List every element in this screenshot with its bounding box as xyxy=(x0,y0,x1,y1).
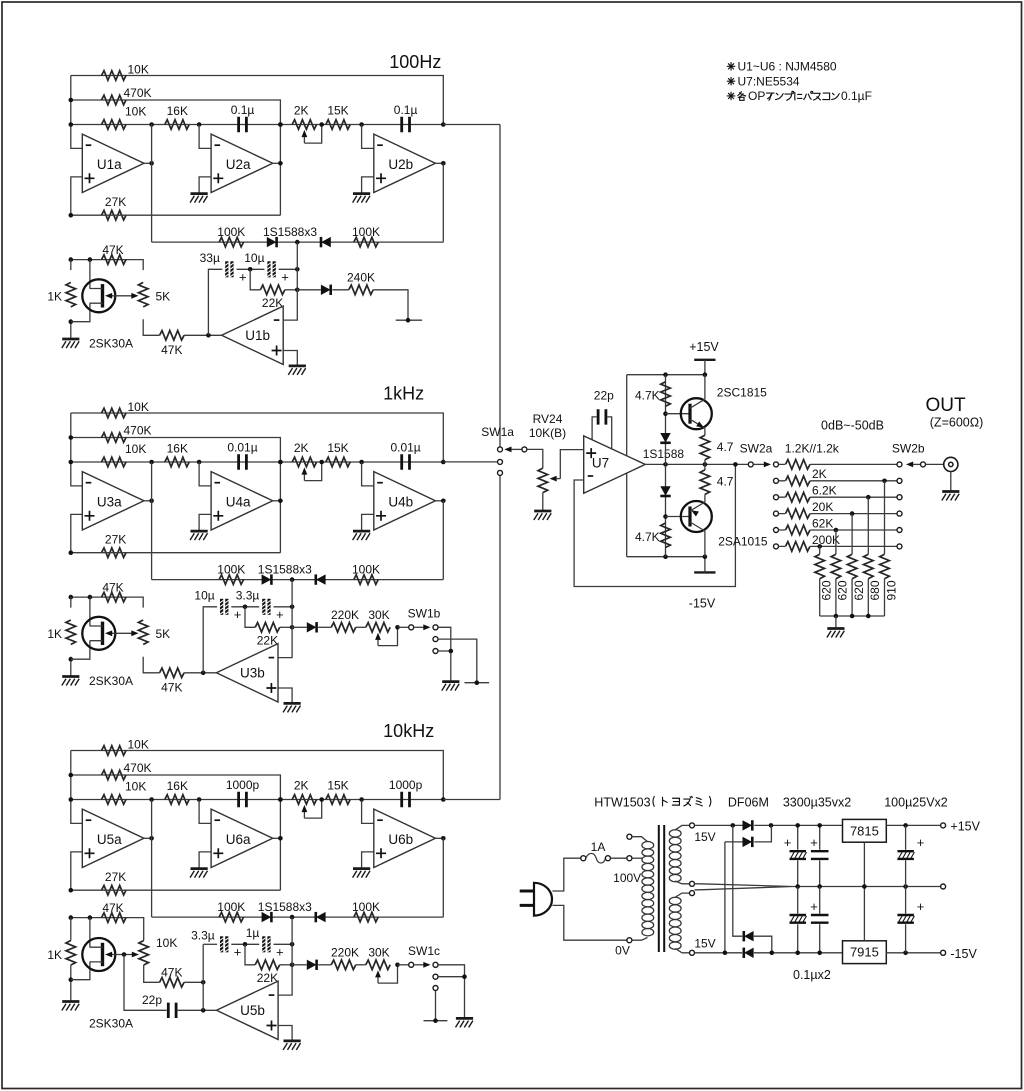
resistor 910 column 5 xyxy=(880,554,890,579)
wire 100u column lower xyxy=(905,887,907,953)
svg-text:10K: 10K xyxy=(128,738,149,752)
switch SW1b common contact xyxy=(409,625,414,630)
resistor 470K 10kHz xyxy=(102,770,127,780)
junction row3 2K 1kHz xyxy=(278,460,283,465)
resistor 620 column 1 xyxy=(815,554,825,579)
diode 1S1588 left 1kHz xyxy=(262,574,272,584)
wire SW1a wiper to RV24 xyxy=(527,449,543,468)
resistor 1K xyxy=(66,620,76,645)
svg-text:+15V: +15V xyxy=(689,340,719,354)
wire attenuator ground bus xyxy=(820,615,885,617)
svg-text:U3a: U3a xyxy=(97,495,122,510)
svg-text:SW2b: SW2b xyxy=(892,441,925,455)
switch SW2b wiper arrow xyxy=(913,463,921,465)
svg-text:15K: 15K xyxy=(327,779,348,793)
op-amp U1a xyxy=(82,134,144,192)
svg-text:U7:NE5534: U7:NE5534 xyxy=(738,74,800,88)
junction rail row3 1kHz xyxy=(69,460,74,465)
wire 3300u column upper xyxy=(797,825,799,886)
svg-text:2K: 2K xyxy=(294,441,309,455)
secondary terminal 15V upper xyxy=(690,823,695,828)
switch SW1b contact 1 xyxy=(433,625,438,630)
junction 30K SW1c xyxy=(395,963,400,968)
resistor 47K upper xyxy=(102,255,127,265)
svg-text:22p: 22p xyxy=(594,388,614,402)
svg-text:5K: 5K xyxy=(156,289,171,303)
svg-text:33µ: 33µ xyxy=(200,251,220,265)
wire D3 anode to -rail xyxy=(754,936,772,953)
wire Q2 base xyxy=(666,516,691,518)
wire RV24 wiper lead xyxy=(557,478,561,480)
trimmer 2K wiper 1kHz xyxy=(304,462,321,481)
wire attenuator row 2 xyxy=(779,480,898,482)
svg-text:27K: 27K xyxy=(105,195,126,209)
svg-text:10K: 10K xyxy=(128,400,149,414)
resistor 27K 10kHz xyxy=(102,885,127,895)
ground at U5b xyxy=(283,1041,301,1050)
resistor 240K xyxy=(349,285,373,295)
note U7 NE5534 xyxy=(727,77,735,85)
junction row3 15K-cap 100Hz xyxy=(359,122,364,127)
wire inverting input U2a xyxy=(199,125,211,149)
svg-text:+: + xyxy=(917,899,925,914)
junction 47K node 10kHz xyxy=(201,980,206,985)
svg-text:7815: 7815 xyxy=(850,823,879,838)
wire non-inverting input U2a to ground xyxy=(199,177,211,194)
wire 22p left lead xyxy=(592,417,597,441)
terminal -15V out xyxy=(941,950,946,955)
switch SW2b contact 2 xyxy=(897,478,902,483)
svg-text:+: + xyxy=(276,607,284,622)
capacitor 22p 10kHz xyxy=(168,1003,176,1018)
capacitor 0.1u upper xyxy=(811,851,829,859)
trimmer 30K SW1c xyxy=(366,960,390,970)
wire 240K to terminal bar xyxy=(373,290,408,320)
capacitor 100u upper xyxy=(897,851,914,859)
ground OUT jack xyxy=(942,492,960,501)
wire inverting input U6a xyxy=(199,800,211,824)
wire output U2b xyxy=(435,162,443,164)
wire SW1c contact1 to ground xyxy=(438,965,465,1019)
svg-text:4.7: 4.7 xyxy=(717,475,734,489)
wire gate to pot wiper 10kHz xyxy=(108,954,137,956)
wire Q2 collector to -15V xyxy=(704,531,706,557)
svg-text:100K: 100K xyxy=(217,225,245,239)
wire 1K to ground xyxy=(70,657,72,677)
resistor 4.7 upper xyxy=(700,435,710,460)
svg-text:-15V: -15V xyxy=(950,947,977,961)
wire non-inverting input U2b to ground xyxy=(362,177,374,194)
transformer primary 100V tap xyxy=(627,856,632,861)
junction row3 right 1kHz xyxy=(441,460,446,465)
wire non-inverting input U4a to ground xyxy=(199,514,211,531)
switch SW2b wiper contact xyxy=(921,462,926,467)
wire 100Hz row3 to bus xyxy=(443,124,500,126)
wire 1K to ground 10kHz xyxy=(70,965,72,1001)
junction rail 470K 100Hz xyxy=(69,98,74,103)
wire non-inverting input U1a xyxy=(71,177,83,215)
switch SW2b contact 5 xyxy=(897,528,902,533)
wire rail to 1K 10kHz xyxy=(70,918,72,941)
wire U1a output to row3 xyxy=(151,125,153,243)
capacitor 1u 10kHz xyxy=(262,936,270,952)
switch SW2a contact 5 xyxy=(774,528,779,533)
potentiometer 10K 10kHz xyxy=(139,941,149,966)
junction output U4b xyxy=(441,499,446,504)
junction caps-22K xyxy=(243,605,248,610)
svg-text:16K: 16K xyxy=(167,779,188,793)
svg-text:3300µ35vx2: 3300µ35vx2 xyxy=(783,796,851,810)
capacitor 10&#181; xyxy=(220,599,228,615)
trimmer 2K 1kHz xyxy=(292,457,317,467)
ground below RV24 xyxy=(534,511,552,520)
wire 7815 output xyxy=(886,824,940,826)
junction b-amp input xyxy=(206,333,211,338)
wire column 3 vertical xyxy=(851,514,853,555)
svg-text:(Z=600Ω): (Z=600Ω) xyxy=(930,416,983,430)
wire top 10K rail 10kHz xyxy=(71,751,444,800)
svg-text:620: 620 xyxy=(836,580,850,600)
resistor 4.7K upper xyxy=(661,382,671,406)
svg-text:10µ: 10µ xyxy=(194,589,214,603)
junction output U6b xyxy=(441,836,446,841)
wire SW1c contact3 to bar xyxy=(435,991,437,1021)
junction rail row3 100Hz xyxy=(69,122,74,127)
wire D2 row xyxy=(725,825,772,842)
svg-text:U4b: U4b xyxy=(388,495,413,510)
svg-text:10K: 10K xyxy=(125,105,146,119)
wire drain to 47K row 10kHz xyxy=(89,918,91,948)
wire Q1 emitter to 4.7 xyxy=(704,428,706,435)
switch SW1a wiper contact xyxy=(522,447,527,452)
ground at U6b xyxy=(353,869,371,878)
ground at U4b xyxy=(353,531,371,540)
wire 0V tap to winding xyxy=(632,938,648,941)
svg-text:1K: 1K xyxy=(47,289,62,303)
junction output feedback xyxy=(733,462,738,467)
resistor 10K row3 100Hz xyxy=(102,120,127,130)
wire diode limiter row 1kHz xyxy=(152,501,444,580)
svg-text:100K: 100K xyxy=(352,900,380,914)
ground at U2b xyxy=(353,194,371,203)
wire node vertical 10kHz xyxy=(202,944,204,1010)
resistor 22K 10kHz xyxy=(255,960,280,970)
op-amp U4b xyxy=(374,472,436,530)
wire pot bottom to 47K xyxy=(143,319,159,335)
svg-text:U6b: U6b xyxy=(388,832,413,847)
wire attenuator row 4 xyxy=(779,513,898,515)
junction drain 47K row 10kHz xyxy=(88,915,93,920)
wire 7915 output xyxy=(886,952,940,954)
svg-text:6.2K: 6.2K xyxy=(812,484,837,498)
junction output U5a xyxy=(149,836,154,841)
switch SW2b contact 1 xyxy=(897,462,902,467)
wire 3300u column lower xyxy=(797,887,799,953)
wire 47K gate row xyxy=(71,260,143,271)
resistor 15K 1kHz xyxy=(326,457,350,467)
capacitor 33&#181; xyxy=(225,261,233,277)
wire diode to 220K xyxy=(318,626,331,628)
wire non-inverting U5b to ground xyxy=(278,1026,292,1041)
svg-text:OUT: OUT xyxy=(925,395,966,416)
wire 220K to 30K xyxy=(356,964,366,966)
resistor 10K row3 10kHz xyxy=(102,795,127,805)
resistor 100K left 100Hz xyxy=(219,237,244,247)
potentiometer RV24 xyxy=(538,468,548,493)
resistor 4.7 lower xyxy=(700,470,710,495)
capacitor 1000p first 10kHz xyxy=(239,792,247,807)
svg-text:220K: 220K xyxy=(331,946,359,960)
svg-text:0.1µ: 0.1µ xyxy=(231,103,255,117)
wire 47K to b-amp xyxy=(184,672,216,674)
wire non-inverting U3b to ground xyxy=(278,688,292,703)
svg-text:470K: 470K xyxy=(124,761,152,775)
wire 27K row 100Hz xyxy=(71,214,281,216)
wire column 1 vertical xyxy=(819,546,821,554)
svg-text:2SK30A: 2SK30A xyxy=(89,336,133,350)
wire 47K gate row 10kHz xyxy=(71,918,144,941)
wire top 10K rail 100Hz xyxy=(71,76,444,125)
svg-text:47K: 47K xyxy=(161,343,182,357)
diode 240K branch xyxy=(321,285,331,295)
junction 22K node xyxy=(290,625,295,630)
JFET 2SK30A 10kHz xyxy=(82,938,115,971)
wire gate to pot wiper xyxy=(108,295,137,297)
switch SW2a contact 3 xyxy=(774,495,779,500)
wire secondary mid-lower to terminal xyxy=(675,893,689,897)
wire cap2 to node 10kHz xyxy=(274,943,293,945)
resistor 10K row1 1kHz xyxy=(102,408,127,418)
svg-text:2SA1015: 2SA1015 xyxy=(718,534,768,548)
svg-text:470K: 470K xyxy=(124,424,152,438)
svg-text:15V: 15V xyxy=(694,830,715,844)
svg-text:470K: 470K xyxy=(124,86,152,100)
svg-text:RV24: RV24 xyxy=(533,412,563,426)
wire -rail bottom xyxy=(695,952,843,954)
junction D2 drop xyxy=(723,951,728,956)
wire top tap to winding xyxy=(632,837,648,842)
OUT connector xyxy=(944,457,958,471)
switch SW2a contact 4 xyxy=(774,511,779,516)
wire 22K to node xyxy=(285,289,297,291)
junction row3 16K-cap 100Hz xyxy=(197,122,202,127)
wire non-inverting input U5a xyxy=(71,852,83,890)
wire diode node vertical xyxy=(283,242,297,320)
svg-text:10K: 10K xyxy=(156,936,177,950)
svg-text:7915: 7915 xyxy=(850,945,879,960)
svg-text:22p: 22p xyxy=(142,993,162,1007)
wire plug to fuse xyxy=(552,858,580,891)
wire output U4b xyxy=(435,500,443,502)
svg-text:20K: 20K xyxy=(812,500,833,514)
junction row3 15K-cap 1kHz xyxy=(359,460,364,465)
diode 1S1588 lower xyxy=(660,486,670,496)
switch SW1c contact 3 xyxy=(433,986,438,991)
svg-text:10µ: 10µ xyxy=(244,251,264,265)
wire bias frame left vertical xyxy=(626,375,628,557)
diode SW1c branch xyxy=(307,960,317,970)
svg-text:27K: 27K xyxy=(105,533,126,547)
junction cap2 node 10kHz xyxy=(290,942,295,947)
switch SW2b contact 4 xyxy=(897,511,902,516)
resistor 620 column 3 xyxy=(847,554,857,579)
svg-text:0.01µ: 0.01µ xyxy=(227,441,257,455)
resistor 22K xyxy=(255,623,280,633)
wire 10kHz row3 to bus xyxy=(443,799,500,801)
wire 470K row 10kHz xyxy=(71,775,281,890)
capacitor 100u lower xyxy=(897,915,914,923)
svg-text:1S1588x3: 1S1588x3 xyxy=(258,900,312,914)
terminal +15V out xyxy=(941,823,946,828)
resistor 47K upper xyxy=(102,592,127,602)
wire Q1 collector to +15V xyxy=(704,375,706,400)
resistor 2K row 2 xyxy=(786,476,811,486)
wire node to SW1b branch xyxy=(292,626,307,628)
wire non-inverting input U6a to ground xyxy=(199,852,211,869)
wire between caps 10kHz xyxy=(231,943,259,945)
wire diode chain vertical xyxy=(665,375,667,557)
transistor Q1 2SC1815 xyxy=(681,398,712,429)
wire 22p right lead xyxy=(607,417,611,450)
wire gate to pot wiper xyxy=(108,632,137,634)
junction row5 column 620 xyxy=(834,528,839,533)
wire 22p to b-amp xyxy=(178,1009,217,1011)
resistor 200K row 6 xyxy=(786,542,811,552)
svg-text:U2b: U2b xyxy=(388,157,413,172)
junction 22K node 10kHz xyxy=(290,963,295,968)
switch SW1c contact 2 xyxy=(433,974,438,979)
svg-text:2K: 2K xyxy=(294,779,309,793)
svg-text:10K: 10K xyxy=(125,442,146,456)
wire U7 output xyxy=(645,463,751,465)
resistor 100K right 10kHz xyxy=(354,912,378,922)
resistor 16K 10kHz xyxy=(165,795,189,805)
wire U3a output to row3 xyxy=(151,462,153,580)
JFET 2SK30A xyxy=(82,617,115,650)
ground at U4a xyxy=(190,531,208,540)
resistor 27K 100Hz xyxy=(102,210,127,220)
junction row3 16K-cap 1kHz xyxy=(197,460,202,465)
AC plug xyxy=(534,883,552,916)
svg-text:1A: 1A xyxy=(591,840,606,854)
wire 47K to node 10kHz xyxy=(184,981,203,983)
fuse terminal right xyxy=(605,856,610,861)
trimmer 2K wiper 100Hz xyxy=(304,125,321,144)
regulator 7815 xyxy=(843,819,887,842)
svg-text:10kHz: 10kHz xyxy=(383,721,434,741)
junction rail row3 10kHz xyxy=(69,797,74,802)
svg-text:2SK30A: 2SK30A xyxy=(89,1016,133,1030)
op-amp U5b xyxy=(217,981,279,1039)
wire 47K to b-amp xyxy=(184,334,222,336)
power -15V symbol xyxy=(694,571,715,573)
wire top 10K rail 1kHz xyxy=(71,413,444,462)
trimmer 30K wiper SW1c xyxy=(378,965,398,983)
junction row3 left 10kHz xyxy=(149,797,154,802)
wire SW1b contact1 to ground xyxy=(438,627,451,681)
wire 100Hz bus to SW1a xyxy=(499,125,501,447)
switch SW1a contact 100Hz xyxy=(498,447,503,452)
wire 27K row 1kHz xyxy=(71,552,281,554)
ground SW1c contact1 xyxy=(456,1018,474,1027)
svg-text:3.3µ: 3.3µ xyxy=(191,929,215,943)
wire to SW1c xyxy=(398,964,409,966)
wire output U6b xyxy=(435,837,443,839)
junction 30K SW1b xyxy=(395,625,400,630)
switch SW1c contact 1 xyxy=(433,962,438,967)
junction rail 470K 10kHz xyxy=(69,773,74,778)
wire column 5 vertical xyxy=(884,481,886,554)
svg-text:100K: 100K xyxy=(217,900,245,914)
svg-text:HTW1503: HTW1503 xyxy=(594,796,650,810)
wire 22K drop 10kHz xyxy=(245,944,255,965)
svg-text:47K: 47K xyxy=(161,681,182,695)
junction source-1K xyxy=(69,319,74,324)
RV24 wiper to U7 non-inverting input xyxy=(560,450,583,479)
wire column 1 to bus xyxy=(819,579,821,616)
diode D2 DF06M xyxy=(743,837,753,847)
op-amp U6a xyxy=(211,809,273,867)
junction b-amp input 10kHz xyxy=(201,1008,206,1013)
wire 100V tap to winding xyxy=(632,857,643,859)
wire SW1a to 10kHz bus xyxy=(499,475,501,799)
wire 1kHz row3 to SW1a xyxy=(443,461,497,463)
wire 4.7 to output node xyxy=(704,460,706,470)
diode D3 DF06M xyxy=(744,931,754,941)
wire U7 feedback loop xyxy=(574,464,735,586)
resistor 220K SW1b xyxy=(331,623,356,633)
junction row4 column 620 xyxy=(850,511,855,516)
wire inverting input U1a xyxy=(71,76,83,149)
op-amp U1b xyxy=(222,306,284,364)
junction row2 column 910 xyxy=(882,479,887,484)
svg-text:1K: 1K xyxy=(47,948,62,962)
wire cap2 to node xyxy=(274,606,293,608)
diode 1S1588 upper xyxy=(660,433,670,443)
wire non-inverting input U4b to ground xyxy=(362,514,374,531)
svg-text:1S1588x3: 1S1588x3 xyxy=(263,225,317,239)
wire center tap pair xyxy=(695,884,793,890)
svg-text:U1b: U1b xyxy=(245,328,270,343)
op-amp U6b xyxy=(374,809,436,867)
transformer secondary winding lower xyxy=(669,897,681,949)
wire 0.1u column upper xyxy=(819,825,821,886)
secondary terminal center upper xyxy=(690,881,695,886)
op-amp U3b xyxy=(216,644,278,702)
switch SW1a contact 1kHz xyxy=(498,459,503,464)
svg-text:1000p: 1000p xyxy=(226,778,260,792)
svg-text:10K: 10K xyxy=(125,780,146,794)
wire 0.1u column lower xyxy=(819,887,821,953)
wire plug to 0V terminal xyxy=(552,905,627,940)
svg-text:+: + xyxy=(810,835,818,850)
wire node to 240K branch xyxy=(297,289,321,291)
svg-text:62K: 62K xyxy=(812,516,833,530)
wire diode to 240K xyxy=(332,289,349,291)
svg-text:4.7: 4.7 xyxy=(717,440,734,454)
svg-text:1S1588: 1S1588 xyxy=(643,447,685,461)
secondary terminal center lower xyxy=(690,891,695,896)
wire diode node vertical xyxy=(278,580,292,658)
capacitor 22p U7 xyxy=(598,409,606,424)
wire secondary mid-upper to terminal xyxy=(675,881,689,884)
wire main row 100Hz xyxy=(71,124,444,126)
wire +rail top xyxy=(695,824,843,826)
wire non-inverting U1b to ground xyxy=(283,351,297,366)
terminal bar 240K end xyxy=(396,319,422,321)
junction row3 right 100Hz xyxy=(441,122,446,127)
svg-text:-15V: -15V xyxy=(689,597,716,611)
